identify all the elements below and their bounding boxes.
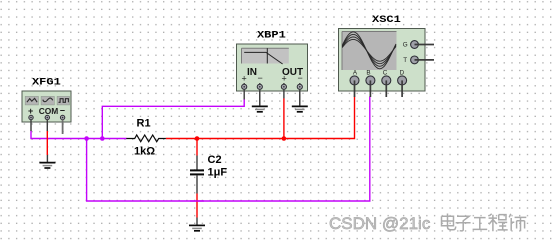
svg-text:COM: COM bbox=[39, 106, 59, 116]
bode curve bbox=[244, 52, 282, 64]
ground under C2 bbox=[189, 218, 205, 231]
resistor R1 bbox=[126, 118, 166, 158]
svg-text:−: − bbox=[258, 73, 263, 83]
svg-text:R1: R1 bbox=[137, 118, 151, 130]
svg-text:T: T bbox=[403, 57, 407, 64]
svg-text:IN: IN bbox=[247, 67, 257, 78]
svg-text:G: G bbox=[403, 42, 408, 49]
oscilloscope XSC1 bbox=[339, 15, 435, 97]
svg-text:+: + bbox=[242, 74, 247, 84]
function generator XFG1 bbox=[22, 77, 71, 134]
svg-text:C2: C2 bbox=[208, 154, 222, 166]
svg-text:XFG1: XFG1 bbox=[32, 77, 61, 88]
bode plotter XBP1 bbox=[237, 30, 308, 105]
wire: magenta bottom rail from node A down, right, up to XSC1 B bbox=[87, 97, 370, 202]
shi bbox=[509, 214, 526, 231]
cursor line bbox=[266, 48, 268, 63]
ground under XFG1 COM bbox=[39, 155, 55, 168]
ground under XBP1 OUT- bbox=[292, 88, 308, 112]
wire: red XBP1 OUT+ down to node line bbox=[283, 98, 285, 138]
capacitor C2 bbox=[190, 154, 227, 194]
wire: red C2 top lead bbox=[196, 139, 198, 156]
cheng bbox=[489, 214, 508, 231]
wire: red C2 bottom lead to ground bbox=[196, 194, 198, 218]
junction node OUT+ bbox=[282, 136, 287, 141]
svg-text:1kΩ: 1kΩ bbox=[134, 145, 155, 157]
wire: magenta rail over C2 lead bbox=[190, 200, 204, 202]
svg-text:−: − bbox=[60, 106, 65, 116]
ground under XBP1 IN- bbox=[252, 88, 268, 112]
wire: magenta from node B up and right to XBP1 IN+ bbox=[102, 100, 244, 139]
wire: magenta from XFG1 + terminal down and right to R1 bbox=[31, 131, 127, 139]
junction node A bbox=[84, 136, 89, 141]
svg-text:−: − bbox=[298, 73, 303, 83]
wire: red XFG1 COM down to ground bbox=[46, 131, 48, 156]
wire: red main node line R1 to XSC1 A bbox=[166, 97, 355, 139]
svg-text:XBP1: XBP1 bbox=[257, 30, 286, 41]
svg-text:XSC1: XSC1 bbox=[372, 15, 401, 26]
dian bbox=[442, 214, 456, 230]
zi bbox=[456, 216, 471, 231]
svg-text:+: + bbox=[28, 106, 33, 116]
svg-text:+: + bbox=[282, 74, 287, 84]
junction node B bbox=[100, 136, 105, 141]
gong bbox=[473, 218, 488, 230]
svg-text:CSDN @21ic: CSDN @21ic bbox=[329, 214, 431, 233]
watermark chinese glyphs dian zi gong cheng shi bbox=[442, 214, 527, 232]
svg-text:1μF: 1μF bbox=[208, 166, 228, 178]
junction node C2 top bbox=[195, 136, 200, 141]
